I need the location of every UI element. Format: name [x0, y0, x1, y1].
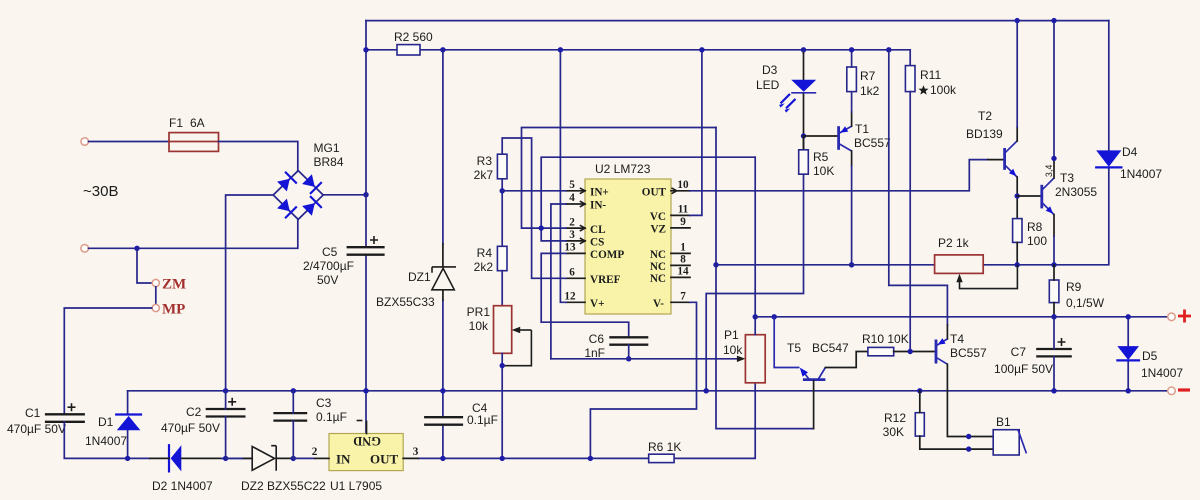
svg-text:T2: T2	[978, 109, 992, 123]
junction C2 bottom line	[223, 456, 228, 461]
svg-text:IN+: IN+	[590, 187, 609, 199]
svg-text:3,4: 3,4	[1044, 165, 1054, 178]
wire T4 collector to B1	[947, 364, 993, 436]
MP terminal	[152, 304, 159, 311]
svg-text:9: 9	[680, 216, 686, 228]
U2 pin 7 stub	[671, 291, 690, 303]
junction D3 rail	[801, 47, 806, 52]
svg-text:470µF 50V: 470µF 50V	[161, 421, 220, 435]
svg-text:13: 13	[564, 242, 576, 254]
svg-text:5: 5	[569, 179, 575, 191]
svg-text:3: 3	[413, 446, 419, 458]
wire T3 base	[1017, 195, 1042, 197]
wire top rail	[366, 20, 1109, 22]
svg-text:GND: GND	[353, 434, 381, 448]
junction R7 rail	[849, 47, 854, 52]
svg-text:1N4007: 1N4007	[85, 434, 127, 448]
minus tick near U1 GND	[357, 420, 363, 422]
wire ZM to MP link	[155, 287, 157, 304]
U2 pin 8 stub	[671, 254, 690, 266]
svg-text:D4: D4	[1122, 145, 1138, 159]
svg-text:12: 12	[564, 291, 576, 303]
wire T2 emitter down	[1016, 177, 1018, 219]
svg-text:DZ1: DZ1	[408, 270, 431, 284]
svg-text:V-: V-	[653, 298, 664, 310]
negative rail	[128, 390, 1168, 392]
wire T5 emitter lane	[774, 317, 799, 368]
svg-text:T5: T5	[787, 341, 801, 355]
svg-text:DZ2 BZX55C22: DZ2 BZX55C22	[241, 479, 326, 493]
U2 pin 14 stub	[671, 266, 690, 278]
IC U2 LM723	[585, 179, 671, 314]
svg-text:R8: R8	[1027, 220, 1043, 234]
svg-text:1: 1	[680, 242, 686, 254]
svg-text:C3: C3	[316, 396, 332, 410]
potentiometer PR1	[494, 306, 532, 366]
transistor T5	[800, 368, 826, 380]
U2 pin 2 stub	[566, 216, 585, 231]
svg-text:6: 6	[569, 267, 575, 279]
capacitor C3	[273, 391, 307, 459]
wire minus5 line segments	[226, 383, 756, 459]
wire DZ1/C4 lane	[442, 50, 444, 417]
svg-text:1k2: 1k2	[860, 84, 880, 98]
wire rail to T4 emitter	[889, 50, 948, 325]
svg-text:VZ: VZ	[650, 224, 666, 236]
junction T5 emitter rail	[772, 314, 777, 319]
junction R8 sense line	[1015, 262, 1020, 267]
resistor R4	[497, 246, 507, 270]
wire PR1 bottom lane	[501, 353, 503, 458]
wire R10 to T4 base	[894, 351, 936, 353]
svg-text:2/4700µF: 2/4700µF	[303, 259, 354, 273]
plus output terminal	[1168, 313, 1176, 321]
diode D2	[150, 445, 252, 471]
U2 pin 1 stub	[671, 242, 690, 254]
svg-text:R11: R11	[920, 68, 941, 82]
junction C3 bottom line	[291, 456, 296, 461]
zener DZ2	[242, 446, 292, 471]
junction R5 negative rail	[704, 388, 709, 393]
junction rail-C5	[363, 47, 368, 52]
wire bridge right to C5 lane	[323, 194, 366, 196]
label R11 *100k	[919, 68, 958, 97]
svg-text:NC: NC	[650, 273, 666, 285]
potentiometer P2	[935, 255, 1018, 289]
AC input terminal top	[81, 138, 89, 146]
resistor R2	[397, 45, 420, 55]
junction D5 negative rail	[1126, 388, 1131, 393]
wire bridge left to negative lane	[226, 195, 274, 391]
svg-text:OUT: OUT	[642, 187, 667, 199]
junction PR1 bottom line	[500, 456, 505, 461]
wire MP to C1	[64, 308, 151, 414]
wire to ZM terminal	[137, 248, 152, 283]
svg-text:NC: NC	[650, 261, 666, 273]
junction R11 R10 T4	[908, 349, 913, 354]
diode D4	[1096, 21, 1121, 169]
svg-text:11: 11	[678, 204, 689, 216]
svg-text:0.1µF: 0.1µF	[467, 413, 498, 427]
U1 pin 2 stub	[315, 457, 329, 459]
svg-text:C1: C1	[25, 406, 41, 420]
junction B1 upper	[966, 434, 971, 439]
svg-text:R2 560: R2 560	[394, 30, 433, 44]
resistor R12	[915, 413, 924, 436]
svg-text:2: 2	[312, 446, 318, 458]
svg-text:OUT: OUT	[370, 452, 399, 467]
transistor T3	[1042, 178, 1054, 215]
svg-text:R12: R12	[884, 411, 906, 425]
svg-text:MP: MP	[162, 302, 185, 318]
junction D3 T1 base	[801, 133, 806, 138]
svg-text:CL: CL	[590, 224, 606, 236]
wire AC top to fuse	[89, 141, 170, 143]
resistor R3	[497, 154, 507, 179]
svg-text:VREF: VREF	[590, 274, 621, 286]
transistor T1	[839, 126, 852, 151]
svg-text:2: 2	[569, 216, 575, 228]
svg-text:T1: T1	[855, 122, 869, 136]
wire R8 bottom	[1016, 242, 1018, 264]
svg-text:MG1: MG1	[314, 141, 340, 155]
svg-text:~30В: ~30В	[83, 183, 118, 200]
plus output rail	[755, 316, 1168, 318]
svg-text:30K: 30K	[883, 425, 904, 439]
junction T1 collector sense line	[849, 262, 854, 267]
svg-text:7: 7	[680, 291, 686, 303]
junction T4 emitter rail tap	[886, 47, 891, 52]
svg-text:COMP: COMP	[590, 249, 624, 261]
capacitor C2	[206, 391, 246, 459]
svg-text:D2 1N4007: D2 1N4007	[152, 479, 213, 493]
wire C1 bottom to minus5 line	[64, 422, 150, 459]
svg-text:P1: P1	[724, 328, 739, 342]
svg-text:VC: VC	[650, 211, 666, 223]
svg-text:2k2: 2k2	[474, 260, 494, 274]
wire R12 stubs to B1	[920, 391, 993, 449]
svg-text:R5: R5	[813, 150, 829, 164]
resistor R6	[649, 454, 674, 462]
junction DZ1 rail	[440, 47, 445, 52]
svg-text:14: 14	[677, 266, 689, 278]
wire current sense line	[716, 168, 1109, 264]
svg-text:8: 8	[680, 254, 686, 266]
capacitor C1	[45, 403, 85, 422]
svg-text:V+: V+	[590, 298, 604, 310]
wire COMP to C6 top	[541, 253, 629, 337]
U1 pin 3 stub	[403, 457, 418, 459]
svg-text:P2 1k: P2 1k	[938, 236, 970, 250]
svg-text:BR84: BR84	[314, 155, 344, 169]
U2 pin 9 stub	[671, 216, 690, 228]
wire CL to upper channel	[522, 128, 717, 229]
svg-text:BC547: BC547	[812, 341, 849, 355]
svg-text:1nF: 1nF	[584, 346, 605, 360]
resistor R9	[1049, 280, 1059, 303]
wire VC lane	[690, 50, 702, 216]
svg-text:D5: D5	[1142, 349, 1158, 363]
junction negative rail C5 lane	[363, 388, 368, 393]
wire R5 bottom to negative rail	[706, 174, 803, 391]
U2 pin 12 stub	[564, 291, 585, 303]
junction R9 plus rail	[1051, 314, 1056, 319]
U2 pin 10 stub	[671, 179, 690, 194]
wire R4 bottom to PR1	[501, 271, 503, 306]
junction T2 emitter T3 base	[1015, 193, 1020, 198]
wire T5 base lane	[716, 128, 814, 429]
junction ZM tap	[134, 246, 139, 251]
svg-text:50V: 50V	[317, 273, 338, 287]
wire T3 emitter down	[1053, 215, 1055, 236]
junction IN+ divider	[500, 188, 505, 193]
wire AC bottom to bridge	[89, 220, 298, 249]
svg-text:D1: D1	[98, 415, 114, 429]
minus mark	[1178, 388, 1190, 391]
resistor R7	[847, 67, 857, 92]
wire R7 top to rail	[851, 50, 853, 67]
buzzer B1	[993, 430, 1026, 455]
svg-text:R4: R4	[477, 246, 493, 260]
wire V+ lane	[560, 50, 566, 302]
junction sense line channel	[713, 262, 718, 267]
diode D3 LED	[779, 50, 816, 150]
svg-text:BD139: BD139	[966, 127, 1003, 141]
wire R11 bottom lane	[909, 92, 911, 352]
svg-text:1N4007: 1N4007	[1141, 366, 1183, 380]
svg-text:100µF 50V: 100µF 50V	[994, 362, 1053, 376]
fuse F1	[169, 133, 219, 152]
svg-text:R10 10K: R10 10K	[862, 332, 909, 346]
svg-text:B1: B1	[996, 415, 1011, 429]
svg-text:4: 4	[569, 192, 575, 204]
junction bridge output	[363, 192, 368, 197]
junction C7 negative rail	[1051, 388, 1056, 393]
wire R3 bottom to IN+ junction	[501, 179, 503, 247]
svg-text:LED: LED	[756, 78, 780, 92]
svg-text:IN-: IN-	[590, 200, 606, 212]
junction CL-CS lane	[539, 225, 544, 230]
resistor R8	[1013, 219, 1022, 243]
transistor T2	[1005, 141, 1018, 177]
U2 pin 11 stub	[671, 204, 690, 216]
svg-text:2N3055: 2N3055	[1055, 185, 1097, 199]
svg-text:470µF 50V: 470µF 50V	[7, 422, 66, 436]
svg-text:ZM: ZM	[162, 277, 186, 293]
svg-text:BC557: BC557	[854, 136, 891, 150]
wire IN+ line	[502, 190, 566, 192]
svg-text:6A: 6A	[190, 116, 205, 130]
junction C6 wiper line	[626, 356, 631, 361]
ZM terminal	[152, 279, 159, 286]
IC U1 L7905	[329, 434, 403, 471]
svg-text:C6: C6	[589, 332, 605, 346]
wire OUT to T2 base	[690, 160, 988, 191]
wire V- to minus5 line	[590, 302, 696, 458]
svg-text:10k: 10k	[723, 343, 743, 357]
svg-text:C2: C2	[186, 405, 202, 419]
wire T5 collector to R10	[825, 352, 868, 368]
wire T3 collector to top rail	[1053, 158, 1055, 178]
plus mark	[1178, 310, 1191, 323]
svg-text:U2 LM723: U2 LM723	[595, 162, 651, 176]
bridge rectifier MG1 BR84	[273, 171, 323, 220]
svg-text:IN: IN	[336, 452, 351, 467]
wire CS P1-top channel	[541, 157, 755, 241]
svg-text:R6 1K: R6 1K	[648, 440, 681, 454]
wire T2 collector to top rail	[1016, 127, 1018, 141]
svg-text:PR1: PR1	[467, 305, 491, 319]
wire wiper line to P1 arrow	[551, 358, 738, 360]
capacitor C6	[609, 337, 648, 344]
svg-text:R3: R3	[477, 154, 493, 168]
svg-text:2k7: 2k7	[474, 168, 494, 182]
svg-text:R9: R9	[1066, 280, 1082, 294]
svg-text:BC557: BC557	[950, 346, 987, 360]
P1 wiper arrow	[737, 356, 746, 362]
junction D5 plus rail	[1126, 314, 1131, 319]
junction D1 bottom line	[125, 456, 130, 461]
junction negative rail C4 lane	[440, 388, 445, 393]
svg-text:T4: T4	[950, 332, 964, 346]
svg-text:10K: 10K	[813, 164, 834, 178]
junction PR1 wiper	[500, 363, 505, 368]
capacitor C4	[424, 417, 463, 425]
wire IN- to wiper line	[551, 204, 566, 359]
svg-text:C7: C7	[1011, 345, 1027, 359]
svg-text:CS: CS	[590, 237, 604, 249]
resistor R5	[803, 136, 805, 150]
svg-text:100: 100	[1027, 234, 1047, 248]
wire T1 base	[804, 135, 839, 137]
minus output terminal	[1168, 387, 1176, 395]
junction B1 lower	[966, 446, 971, 451]
wire P1 top lane	[754, 157, 756, 335]
junction C4 bottom line	[440, 456, 445, 461]
capacitor C7	[1036, 317, 1072, 391]
transistor T4	[936, 338, 947, 364]
diode D1	[116, 391, 141, 459]
svg-text:BZX55C33: BZX55C33	[376, 295, 435, 309]
AC input terminal bottom	[81, 245, 89, 253]
svg-text:0,1/5W: 0,1/5W	[1066, 296, 1105, 310]
junction P1 plus rail	[753, 314, 758, 319]
U2 pin 6 stub	[566, 267, 585, 279]
junction R12 negative rail	[917, 388, 922, 393]
junction negative rail C2	[223, 388, 228, 393]
U2 pin 5 stub	[566, 179, 585, 194]
wire fuse to bridge top	[219, 142, 298, 171]
wire T1 emitter to R7	[851, 112, 853, 126]
resistor R11	[905, 66, 915, 92]
capacitor C5	[347, 236, 385, 255]
junction T3 emitter sense line	[1051, 262, 1056, 267]
wire R9 stubs	[1053, 265, 1055, 317]
svg-text:R7: R7	[860, 69, 876, 83]
svg-text:0.1µF: 0.1µF	[316, 410, 347, 424]
potentiometer P1	[745, 335, 765, 383]
junction V+ rail	[558, 47, 563, 52]
wire R3 top to VREF	[502, 138, 566, 278]
wire unregulated rail	[366, 50, 910, 66]
wire C5 lane vertical	[365, 21, 367, 434]
diode D5	[1117, 317, 1139, 391]
wire C6 bottom	[628, 345, 630, 359]
svg-text:U1 L7905: U1 L7905	[330, 479, 382, 493]
svg-text:C5: C5	[322, 245, 338, 259]
resistor R10	[868, 347, 894, 355]
U2 pin 4 stub	[566, 192, 585, 207]
junction T3 collector top rail	[1051, 18, 1056, 23]
svg-text:T3: T3	[1060, 171, 1074, 185]
junction negative rail C3	[291, 388, 296, 393]
svg-text:1N4007: 1N4007	[1120, 167, 1162, 181]
svg-text:100k: 100k	[930, 83, 957, 97]
wire T1 collector lane	[851, 151, 853, 166]
svg-text:D3: D3	[762, 63, 778, 77]
U2 pin 13 stub	[564, 242, 585, 254]
zener DZ1	[432, 267, 456, 290]
svg-text:NC: NC	[650, 249, 666, 261]
svg-text:10k: 10k	[469, 319, 489, 333]
junction VC rail	[699, 47, 704, 52]
junction T2 collector top rail	[1015, 18, 1020, 23]
U2 pin 3 stub	[566, 229, 585, 244]
svg-text:3: 3	[569, 229, 575, 241]
svg-text:F1: F1	[169, 116, 183, 130]
svg-text:10: 10	[677, 179, 689, 191]
junction V- bottom line	[588, 456, 593, 461]
U1 GND pin stub	[366, 422, 368, 434]
